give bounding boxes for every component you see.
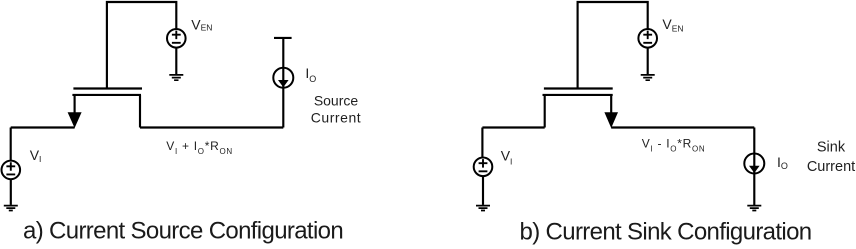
svg-text:VI + IO*RON: VI + IO*RON bbox=[166, 139, 233, 156]
svg-text:VI: VI bbox=[30, 147, 42, 164]
svg-text:VEN: VEN bbox=[662, 16, 683, 34]
svg-text:Source: Source bbox=[314, 93, 359, 109]
svg-text:b) Current Sink Configuration: b) Current Sink Configuration bbox=[520, 219, 812, 246]
svg-text:VEN: VEN bbox=[191, 16, 212, 32]
svg-text:Sink: Sink bbox=[817, 139, 846, 155]
svg-text:IO: IO bbox=[305, 65, 316, 84]
svg-text:IO: IO bbox=[777, 154, 788, 171]
svg-text:a) Current Source Configuratio: a) Current Source Configuration bbox=[23, 218, 343, 245]
svg-text:Current: Current bbox=[311, 110, 362, 126]
svg-text:Current: Current bbox=[807, 159, 855, 175]
svg-text:VI - IO*RON: VI - IO*RON bbox=[642, 137, 706, 154]
svg-text:VI: VI bbox=[501, 147, 513, 166]
